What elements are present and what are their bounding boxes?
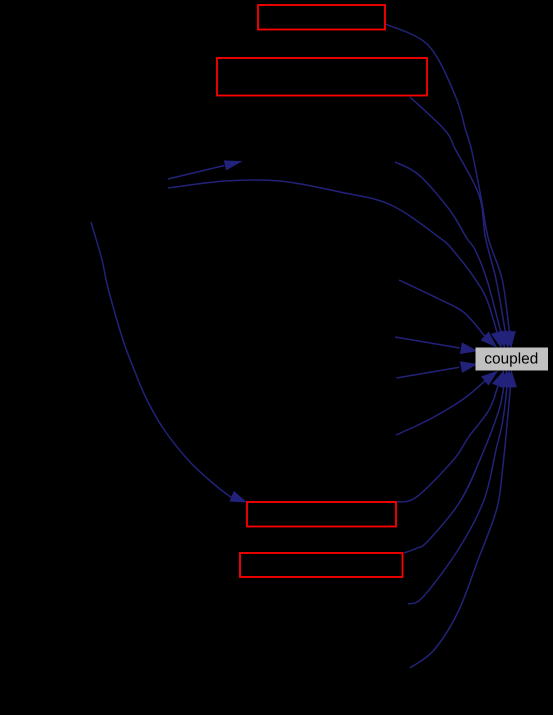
edge nodeD->coupled: [168, 180, 503, 347]
node box1 (red, truncated): [258, 5, 385, 30]
edge left->box3: [91, 222, 246, 502]
edge nodeC->coupled: [395, 162, 507, 347]
edge box4->coupled: [404, 372, 510, 554]
edge nodeL2->coupled: [397, 362, 477, 378]
edge box3->coupled: [396, 372, 504, 503]
edge nodeG4->coupled: [408, 372, 513, 605]
node box2 (red, truncated): [217, 58, 427, 96]
node coupled (current, grey): [476, 348, 549, 371]
node box3 (red, truncated): [247, 502, 396, 527]
edge box1->coupled: [386, 24, 516, 347]
node box4 (red, truncated): [240, 553, 403, 577]
edge nodeL1->coupled: [395, 337, 476, 354]
edge nodeG1->coupled: [396, 372, 497, 436]
edge nodeE->coupled: [399, 280, 496, 347]
edge mid arrow: [168, 161, 241, 179]
edge box2->coupled: [410, 97, 511, 347]
edge nodeG5->coupled: [410, 372, 516, 669]
